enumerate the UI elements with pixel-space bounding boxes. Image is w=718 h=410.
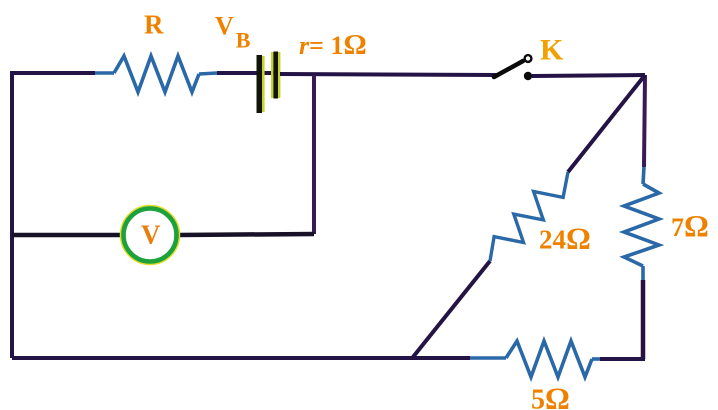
label R <box>144 10 164 40</box>
wire voltmeter branch right <box>179 234 314 235</box>
label 7 ohm <box>671 208 709 243</box>
wire bottom segment right <box>600 357 645 361</box>
svg-text:R: R <box>144 10 164 40</box>
svg-text:24Ω: 24Ω <box>539 221 591 256</box>
resistor 7 ohm <box>624 184 659 266</box>
resistor R <box>114 56 199 92</box>
wire top-left segment <box>10 71 95 75</box>
voltmeter V body <box>123 208 177 262</box>
wire bottom segment left <box>12 356 470 360</box>
label 24 ohm <box>539 221 591 256</box>
wire right vertical upper segment <box>644 75 645 167</box>
label r = 1 ohm <box>299 29 367 61</box>
switch K lever <box>494 61 523 77</box>
svg-text:V: V <box>141 220 161 250</box>
wire blue lead right of resistor R <box>199 73 217 74</box>
wire switch to top-right corner <box>532 75 645 76</box>
wire voltmeter branch left <box>12 233 121 238</box>
wire blue lead right of resistor 5 ohm <box>592 357 600 361</box>
wire right vertical lower segment <box>641 280 646 359</box>
battery VB left plate <box>257 55 265 113</box>
battery VB right plate <box>271 52 280 99</box>
label 5 ohm <box>531 381 570 410</box>
wire blue lead below resistor 7 ohm <box>641 266 645 280</box>
switch K fixed contact dot <box>524 72 532 80</box>
wire blue lead above resistor 7 ohm <box>643 167 644 184</box>
svg-text:VB: VB <box>215 12 251 53</box>
wire from battery to switch <box>280 74 498 75</box>
wire diagonal lower segment <box>413 261 490 357</box>
wire between battery plates <box>258 71 280 75</box>
label K <box>540 34 564 67</box>
resistor 5 ohm <box>506 341 592 377</box>
wire diagonal upper segment <box>568 75 645 172</box>
wire blue lead left of resistor R <box>95 71 114 75</box>
svg-text:r= 1Ω: r= 1Ω <box>299 29 367 61</box>
svg-text:K: K <box>540 34 564 67</box>
wire blue lead left of resistor 5 ohm <box>470 356 506 360</box>
wire left vertical <box>10 73 14 358</box>
switch K open contact circle <box>525 55 532 62</box>
voltmeter V letter <box>141 220 161 250</box>
svg-text:7Ω: 7Ω <box>671 208 709 243</box>
wire from resistor R to battery <box>217 71 258 75</box>
label VB <box>215 12 251 53</box>
svg-text:5Ω: 5Ω <box>531 381 570 410</box>
wire vertical branch to voltmeter line <box>312 75 316 234</box>
resistor 24 ohm diagonal <box>490 172 568 261</box>
